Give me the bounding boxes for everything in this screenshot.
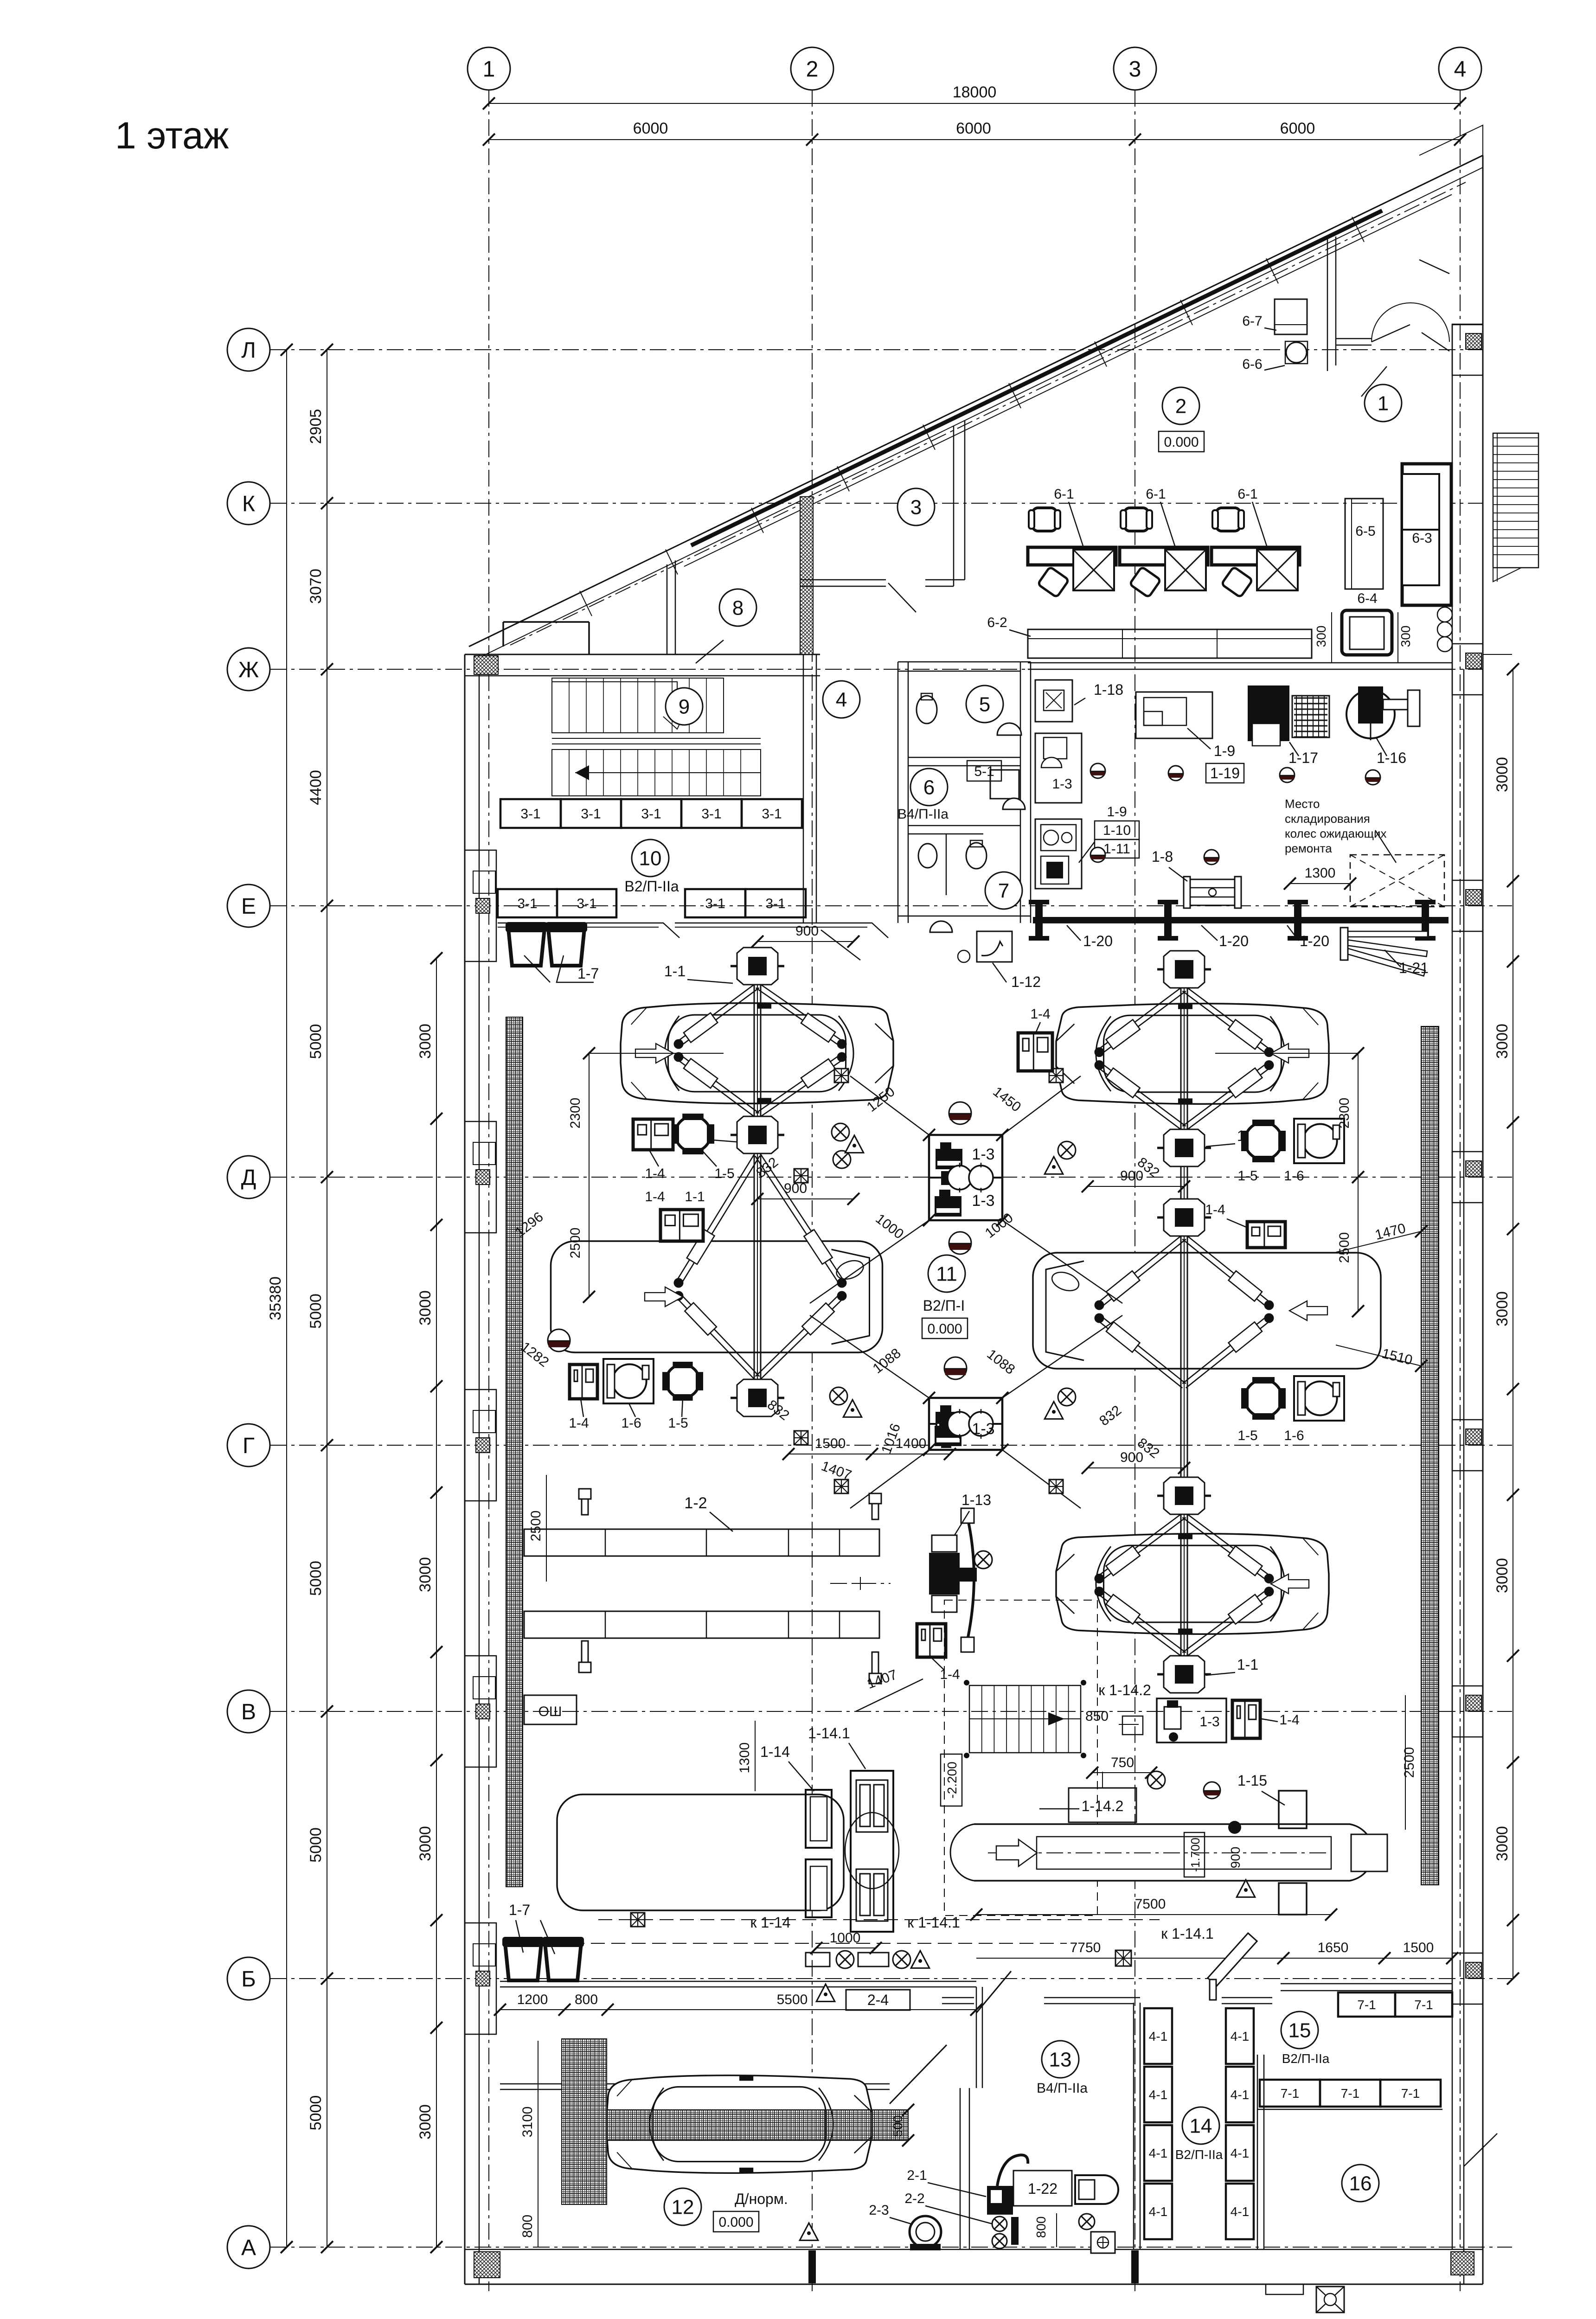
grid column line 2 bbox=[812, 90, 813, 2291]
dim 2500 row3 left bbox=[546, 1475, 547, 1582]
door leaf at Б bbox=[976, 1971, 1011, 2013]
svg-text:900: 900 bbox=[1228, 1847, 1243, 1869]
svg-text:800: 800 bbox=[520, 2215, 535, 2238]
entry arrow bay3 right bbox=[1271, 1574, 1309, 1594]
wall right outer bbox=[1482, 155, 1484, 2284]
vestibule doors bbox=[1372, 325, 1410, 342]
lift right head 4 bbox=[1157, 1477, 1211, 1514]
equip 1-4 right top bbox=[1018, 1033, 1052, 1071]
svg-text:1-5: 1-5 bbox=[668, 1416, 688, 1431]
grid bubble 2 bbox=[791, 47, 833, 90]
dim 900 mid-left lift bbox=[757, 1198, 853, 1199]
beam row Е thick bbox=[1033, 917, 1449, 923]
room 6 bubble bbox=[910, 769, 948, 806]
svg-text:1-3: 1-3 bbox=[1199, 1714, 1219, 1730]
svg-text:1-1: 1-1 bbox=[1237, 1656, 1258, 1673]
sanitary block walls bbox=[897, 662, 899, 923]
svg-text:850: 850 bbox=[1085, 1709, 1109, 1724]
svg-text:1-13: 1-13 bbox=[961, 1492, 991, 1508]
pilaster left wall row 3116 bbox=[465, 1390, 496, 1501]
drains center bbox=[949, 1102, 971, 1124]
svg-text:3100: 3100 bbox=[520, 2107, 535, 2138]
ramp from basement stair to conveyor bbox=[1039, 1808, 1079, 1810]
svg-text:3-1: 3-1 bbox=[577, 896, 596, 911]
dim 2300 right bbox=[1358, 1053, 1359, 1177]
equip 1-18 bbox=[1035, 680, 1072, 722]
svg-text:1-4: 1-4 bbox=[1030, 1006, 1050, 1022]
room 15 bubble bbox=[1281, 2012, 1318, 2049]
svg-text:1-18: 1-18 bbox=[1094, 681, 1123, 698]
dim 2300 left bbox=[589, 1053, 590, 1177]
svg-text:16: 16 bbox=[1349, 2172, 1372, 2195]
svg-text:ремонта: ремонта bbox=[1285, 841, 1332, 855]
small boxes at Б bbox=[806, 1953, 830, 1967]
svg-text:Ж: Ж bbox=[238, 658, 259, 682]
svg-text:3000: 3000 bbox=[417, 2104, 434, 2140]
svg-text:1-2: 1-2 bbox=[684, 1494, 707, 1512]
svg-text:2905: 2905 bbox=[307, 409, 325, 444]
svg-text:10: 10 bbox=[639, 847, 662, 870]
dim 2500 right bbox=[1358, 1177, 1359, 1311]
platform edge below shelves bbox=[498, 923, 679, 938]
dim arrow left bay bbox=[589, 1128, 761, 1129]
svg-text:3000: 3000 bbox=[1493, 1826, 1511, 1861]
grid row bubble Л bbox=[227, 328, 270, 371]
dim chain 1200 800 5500 bbox=[500, 2009, 976, 2010]
svg-text:750: 750 bbox=[1111, 1755, 1134, 1770]
dim 500 wash bbox=[908, 2110, 909, 2140]
svg-text:ОШ: ОШ bbox=[538, 1704, 562, 1719]
svg-text:1-15: 1-15 bbox=[1237, 1772, 1267, 1789]
grid row bubble Д bbox=[227, 1156, 270, 1198]
wall diagonal thick core bbox=[691, 211, 1382, 545]
boxes 1-15 bbox=[1279, 1791, 1307, 1828]
svg-text:18000: 18000 bbox=[953, 83, 997, 101]
svg-text:1-4: 1-4 bbox=[645, 1189, 665, 1204]
room 11 level 0.000 bbox=[922, 1318, 968, 1339]
svg-text:4: 4 bbox=[836, 688, 847, 711]
svg-text:3000: 3000 bbox=[417, 1557, 434, 1592]
svg-text:4-1: 4-1 bbox=[1231, 2088, 1249, 2102]
equip 6-7 bbox=[1275, 299, 1307, 334]
conveyor row4 right bbox=[974, 1824, 1373, 1881]
room 7 bubble bbox=[985, 872, 1022, 909]
svg-text:1-1: 1-1 bbox=[685, 1189, 705, 1204]
car bay2 left (van) bbox=[551, 1241, 883, 1352]
grid row line Г bbox=[270, 1445, 1512, 1446]
grid column line 3 bbox=[1135, 90, 1135, 2291]
dimension chain right 3000 bbox=[1513, 669, 1513, 1979]
svg-text:1-7: 1-7 bbox=[509, 1902, 530, 1918]
grid row line Ж bbox=[270, 669, 1483, 670]
svg-text:1-20: 1-20 bbox=[1083, 933, 1113, 949]
svg-text:1-5: 1-5 bbox=[1237, 1168, 1257, 1184]
grid row bubble В bbox=[227, 1690, 270, 1733]
svg-text:3000: 3000 bbox=[417, 1826, 434, 1861]
room 9 bubble bbox=[666, 688, 703, 725]
svg-text:1-6: 1-6 bbox=[1284, 1428, 1304, 1443]
bottom wall column marks bbox=[808, 2250, 816, 2283]
svg-text:800: 800 bbox=[1034, 2217, 1048, 2238]
dimension chain left spacings bbox=[327, 350, 327, 2247]
dashed feed lines row Б bbox=[598, 1919, 1160, 1920]
label box 1-14.2 bbox=[1069, 1788, 1136, 1822]
svg-text:Б: Б bbox=[241, 1967, 256, 1992]
basement stair dashed outline bbox=[944, 1600, 1097, 1915]
rack 1-2 bottom rail bbox=[524, 1611, 879, 1638]
equip 1-17 machine bbox=[1248, 685, 1289, 741]
svg-text:6-4: 6-4 bbox=[1357, 591, 1377, 606]
grid row bubble Г bbox=[227, 1424, 270, 1467]
svg-text:3000: 3000 bbox=[1493, 757, 1511, 792]
grid bubble 4 bbox=[1439, 47, 1481, 90]
svg-text:В2/П-IIа: В2/П-IIа bbox=[1175, 2147, 1223, 2162]
room 8 bubble bbox=[719, 589, 756, 626]
svg-text:1-3: 1-3 bbox=[972, 1192, 994, 1210]
svg-text:2300: 2300 bbox=[1337, 1098, 1352, 1129]
svg-text:9: 9 bbox=[679, 695, 690, 718]
room 14 bubble bbox=[1182, 2107, 1219, 2144]
facade mullions bbox=[580, 591, 592, 616]
svg-text:3-1: 3-1 bbox=[517, 896, 537, 911]
pilaster left wall row 3690 bbox=[465, 1656, 496, 1767]
wash equipment 2-1 sprayer bbox=[987, 2186, 1013, 2215]
svg-text:6: 6 bbox=[923, 776, 935, 799]
dim 7500 bbox=[976, 1914, 1331, 1915]
svg-text:4-1: 4-1 bbox=[1149, 2088, 1167, 2102]
svg-text:7-1: 7-1 bbox=[1281, 2086, 1299, 2101]
svg-text:2: 2 bbox=[806, 57, 819, 82]
svg-text:5000: 5000 bbox=[307, 1294, 325, 1329]
svg-text:1-6: 1-6 bbox=[1284, 1168, 1304, 1184]
room 3 door bbox=[888, 583, 916, 612]
svg-text:7-1: 7-1 bbox=[1401, 2086, 1420, 2101]
lift left head bottom bbox=[731, 1379, 784, 1416]
svg-text:0.000: 0.000 bbox=[927, 1321, 962, 1337]
shelves 7-1 row at Б bbox=[1338, 1992, 1395, 2017]
pilaster right wall row 2538 bbox=[1452, 1152, 1483, 1203]
svg-text:2500: 2500 bbox=[528, 1511, 544, 1542]
equip 1-5 bay1 left bbox=[675, 1116, 711, 1152]
svg-text:3000: 3000 bbox=[1493, 1558, 1511, 1593]
svg-text:1-11: 1-11 bbox=[1103, 841, 1130, 857]
wall room13 west upper bbox=[976, 1987, 977, 2088]
shelves 7-1 row2 bbox=[1260, 2080, 1320, 2107]
svg-text:В: В bbox=[241, 1700, 256, 1724]
svg-text:В2/П-IIа: В2/П-IIа bbox=[624, 878, 679, 895]
small circle near 1-12 bbox=[958, 950, 970, 962]
wall bottom hatch corner left bbox=[474, 2252, 500, 2278]
wall left outer bbox=[464, 654, 466, 2284]
octagon small squares bbox=[794, 1169, 808, 1183]
pilaster left wall row 2538 bbox=[465, 1121, 496, 1233]
dim 7750 1650 1500 bbox=[976, 1958, 1452, 1959]
funnel drain below bottom wall bbox=[1316, 2287, 1344, 2313]
shelving 3-1 row of five bbox=[500, 799, 561, 828]
svg-text:1-4: 1-4 bbox=[1205, 1202, 1225, 1217]
rack 1-2 posts bbox=[582, 1489, 588, 1515]
svg-text:1-9: 1-9 bbox=[1107, 804, 1127, 820]
door right wall room16 bbox=[1464, 2133, 1497, 2166]
svg-text:2500: 2500 bbox=[1402, 1747, 1417, 1778]
lift left head mid (1-1) bbox=[731, 1116, 784, 1153]
entry arrow bay2 right bbox=[1289, 1301, 1327, 1320]
sink room5 bbox=[997, 723, 1021, 735]
dim 2500 right of В bbox=[1405, 1695, 1406, 1830]
room 8 door bbox=[696, 640, 724, 663]
svg-text:1650: 1650 bbox=[1318, 1940, 1349, 1955]
walls rooms 13/14 bbox=[1133, 2003, 1135, 2249]
svg-text:К: К bbox=[242, 492, 255, 516]
dim 900 right lift bbox=[1088, 1186, 1184, 1187]
svg-text:6-3: 6-3 bbox=[1412, 531, 1432, 546]
svg-text:1-14: 1-14 bbox=[760, 1743, 790, 1760]
svg-text:к 1-14: к 1-14 bbox=[750, 1914, 791, 1931]
tilted plank bbox=[1208, 1933, 1257, 1986]
svg-text:2500: 2500 bbox=[1337, 1232, 1352, 1263]
svg-text:7750: 7750 bbox=[1070, 1940, 1101, 1955]
svg-text:5000: 5000 bbox=[307, 2095, 325, 2131]
svg-text:-1.700: -1.700 bbox=[1188, 1838, 1202, 1872]
tool station bottom (1-3) bbox=[929, 1398, 1002, 1450]
equip 1-5 1-6 right bay1 bbox=[1245, 1122, 1282, 1159]
cabinet 1-4 row В bbox=[1232, 1700, 1260, 1738]
octagon dashed lines bbox=[850, 1076, 929, 1135]
grid bubble 1 bbox=[468, 47, 510, 90]
svg-text:4-1: 4-1 bbox=[1149, 2146, 1167, 2160]
wall right inner bbox=[1452, 325, 1453, 2249]
svg-text:1500: 1500 bbox=[815, 1436, 846, 1451]
svg-text:7: 7 bbox=[998, 879, 1009, 902]
svg-text:3-1: 3-1 bbox=[520, 807, 540, 822]
warning wash bbox=[800, 2223, 818, 2240]
svg-text:3-1: 3-1 bbox=[765, 896, 785, 911]
grid row bubble Е bbox=[227, 884, 270, 927]
svg-text:1 этаж: 1 этаж bbox=[115, 115, 229, 157]
rack 1-2 center mark bbox=[830, 1583, 891, 1584]
fittings row В bbox=[1122, 1716, 1143, 1735]
svg-text:7500: 7500 bbox=[1135, 1896, 1166, 1912]
grid row line Б bbox=[270, 1978, 1512, 1979]
svg-text:3: 3 bbox=[1129, 57, 1141, 82]
wall between 12 and 13 bbox=[960, 2088, 961, 2249]
svg-text:2-4: 2-4 bbox=[867, 1992, 889, 2008]
equip 1-16 balancer bbox=[1346, 690, 1395, 738]
svg-text:Л: Л bbox=[241, 338, 256, 363]
svg-text:6-6: 6-6 bbox=[1242, 357, 1262, 372]
lift right rail bbox=[1180, 969, 1182, 1674]
storage area dashed bbox=[1350, 855, 1444, 907]
wall right middle bbox=[1463, 669, 1465, 2284]
svg-text:1500: 1500 bbox=[1403, 1940, 1434, 1955]
svg-text:5000: 5000 bbox=[307, 1827, 325, 1863]
svg-text:3-1: 3-1 bbox=[641, 807, 661, 822]
svg-text:500: 500 bbox=[891, 2115, 905, 2137]
wall below 7-1 row2 bbox=[1257, 2109, 1442, 2110]
shelving 3-1 pair right bbox=[685, 889, 745, 917]
room 5 bubble bbox=[966, 685, 1003, 723]
wall bottom (row А) bbox=[465, 2284, 1483, 2285]
svg-text:колес ожидающих: колес ожидающих bbox=[1285, 826, 1387, 840]
entrance door arcs bbox=[1372, 303, 1410, 342]
room 4 door opening bbox=[821, 930, 860, 960]
tool station top (1-3) bbox=[929, 1135, 1002, 1220]
svg-text:300: 300 bbox=[1398, 626, 1413, 647]
svg-text:4-1: 4-1 bbox=[1149, 2029, 1167, 2044]
fittings below 1-22 bbox=[1079, 2214, 1095, 2229]
svg-text:1-4: 1-4 bbox=[1279, 1712, 1299, 1728]
grid row bubble Б bbox=[227, 1957, 270, 2000]
svg-text:2: 2 bbox=[1175, 395, 1186, 417]
svg-text:5: 5 bbox=[979, 693, 990, 716]
grid row line Д bbox=[270, 1177, 1512, 1178]
grid row line Е bbox=[270, 905, 1512, 906]
equip 1-4 right mid bbox=[1247, 1222, 1285, 1248]
svg-text:1-4: 1-4 bbox=[645, 1166, 665, 1181]
waste bins 1-7 lower bbox=[505, 1943, 541, 1980]
svg-text:1-22: 1-22 bbox=[1028, 2180, 1058, 2197]
car bay3 right bbox=[1056, 1534, 1329, 1634]
grid row line К bbox=[270, 503, 1483, 504]
tire rack 1-8 bbox=[1186, 879, 1238, 905]
svg-text:1-21: 1-21 bbox=[1399, 960, 1429, 976]
dims above row Г cluster bbox=[788, 1454, 872, 1454]
svg-text:В4/П-IIа: В4/П-IIа bbox=[1037, 2081, 1088, 2096]
pilaster right wall row 3116 bbox=[1452, 1420, 1483, 1471]
svg-text:Место: Место bbox=[1285, 797, 1320, 811]
waste bins 1-7 upper bbox=[508, 929, 545, 966]
svg-text:В2/П-IIа: В2/П-IIа bbox=[1282, 2051, 1330, 2066]
svg-text:Д: Д bbox=[241, 1166, 256, 1190]
dim 300 left of 6-4 bbox=[1331, 612, 1332, 663]
room 8 walls bbox=[667, 564, 668, 654]
grid bubble 3 bbox=[1114, 47, 1156, 90]
svg-text:1-7: 1-7 bbox=[577, 965, 599, 982]
svg-text:3000: 3000 bbox=[417, 1024, 434, 1059]
car bay2 right (van) bbox=[1033, 1253, 1381, 1369]
room 2 bubble bbox=[1162, 387, 1199, 424]
svg-text:Г: Г bbox=[243, 1434, 255, 1458]
radiator scallops bbox=[1437, 607, 1452, 652]
label 1-7 upper bbox=[524, 955, 550, 982]
svg-text:1: 1 bbox=[483, 57, 495, 82]
room 2 level mark 0.000 bbox=[1159, 431, 1204, 452]
shelves 4-1 column A bbox=[1144, 2008, 1172, 2064]
van row4 left bbox=[557, 1794, 844, 1910]
svg-text:5000: 5000 bbox=[307, 1561, 325, 1596]
toilet room5 bbox=[917, 696, 937, 724]
svg-text:6-2: 6-2 bbox=[987, 615, 1007, 630]
gas outlets bbox=[832, 1123, 849, 1141]
svg-text:900: 900 bbox=[795, 923, 819, 939]
svg-text:1300: 1300 bbox=[1305, 865, 1336, 881]
tank 1-22 bbox=[1013, 2171, 1072, 2206]
svg-text:складирования: складирования bbox=[1285, 812, 1370, 826]
svg-text:1-14.2: 1-14.2 bbox=[1082, 1798, 1124, 1814]
wall hatch at Ж left corner bbox=[474, 656, 498, 674]
roof apex triangle bbox=[1419, 125, 1483, 155]
svg-text:4400: 4400 bbox=[307, 770, 325, 805]
signal box ОШ bbox=[524, 1695, 577, 1724]
svg-text:900: 900 bbox=[1120, 1450, 1143, 1465]
svg-text:2-2: 2-2 bbox=[904, 2191, 924, 2206]
svg-text:6-1: 6-1 bbox=[1146, 487, 1166, 502]
pilaster right wall row 754 bbox=[1452, 324, 1483, 375]
wall reception south bbox=[1028, 662, 1452, 664]
room 1 bubble bbox=[1365, 384, 1402, 422]
dim 900 right lift bay3 bbox=[1088, 1467, 1184, 1468]
svg-text:1-20: 1-20 bbox=[1300, 933, 1329, 949]
dim 3100 bbox=[538, 2041, 538, 2203]
wash equipment 2-2 bbox=[992, 2217, 1007, 2231]
room 3 walls bbox=[953, 426, 955, 586]
room 3 bubble bbox=[897, 488, 935, 525]
wash bay car bbox=[607, 2076, 872, 2173]
svg-text:1-20: 1-20 bbox=[1219, 933, 1249, 949]
pilaster right wall row 3690 bbox=[1452, 1686, 1483, 1737]
pump station 1-3 row В bbox=[1157, 1698, 1226, 1742]
wash equipment 2-3 bbox=[910, 2216, 941, 2248]
basement stair bbox=[969, 1685, 1081, 1753]
svg-text:1-9: 1-9 bbox=[1214, 743, 1235, 759]
sanitary lower boxes bbox=[1035, 819, 1082, 889]
sink room 7 bbox=[930, 921, 952, 932]
svg-text:3-1: 3-1 bbox=[762, 807, 782, 822]
room 4 bubble bbox=[823, 681, 860, 718]
svg-text:1-8: 1-8 bbox=[1152, 848, 1173, 865]
svg-text:1300: 1300 bbox=[737, 1742, 752, 1774]
svg-text:Д/норм.: Д/норм. bbox=[735, 2191, 788, 2207]
dimension 6000 segments bbox=[489, 139, 1460, 140]
pilaster right wall row 1953 bbox=[1452, 880, 1483, 931]
dim 300 right of 6-4 bbox=[1397, 612, 1398, 663]
equip 1-5 1-6 right bay2 bbox=[1245, 1380, 1282, 1417]
equip 6-6 cooler bbox=[1286, 342, 1307, 363]
room 10 bubble bbox=[632, 839, 669, 877]
labels 1-9 1-10 1-11 stack bbox=[1095, 821, 1139, 839]
label 1-12 bbox=[993, 963, 1006, 982]
wall row Ж stair block top bbox=[465, 654, 820, 655]
lift right arms X1 bbox=[1095, 987, 1274, 1131]
lift right arms X2 bbox=[1095, 1235, 1274, 1388]
svg-text:1-6: 1-6 bbox=[621, 1416, 641, 1431]
label 5-1 bbox=[967, 761, 1001, 781]
lift left rail bbox=[754, 966, 755, 1398]
svg-text:0.000: 0.000 bbox=[718, 2215, 753, 2230]
svg-text:1-10: 1-10 bbox=[1103, 823, 1131, 838]
svg-text:1-12: 1-12 bbox=[1011, 974, 1041, 990]
lift left arms X1 bbox=[674, 983, 847, 1118]
lift left arms X2 bbox=[674, 1153, 847, 1381]
svg-text:4-1: 4-1 bbox=[1149, 2204, 1167, 2219]
svg-text:12: 12 bbox=[672, 2196, 694, 2218]
grid row line Л bbox=[270, 349, 1483, 350]
dim 750 bbox=[1092, 1772, 1151, 1773]
wall 14/15-16 bbox=[1257, 2055, 1258, 2249]
toilet room 7a bbox=[918, 844, 937, 868]
lift right head 5 (1-1) bbox=[1157, 1656, 1211, 1693]
staircase room 9 flight 2 bbox=[552, 750, 761, 796]
svg-text:3000: 3000 bbox=[1493, 1291, 1511, 1326]
pilaster left wall row 4266 bbox=[465, 1923, 496, 2034]
equip group bay2 bottom left bbox=[570, 1364, 597, 1399]
equip 1-9 1-19 cabinet bbox=[1136, 692, 1212, 738]
armchair 6-4 bbox=[1342, 610, 1392, 655]
svg-text:0.000: 0.000 bbox=[1164, 435, 1199, 450]
svg-text:1400: 1400 bbox=[896, 1436, 927, 1451]
workstation 2 bbox=[1124, 508, 1148, 531]
wall diagonal facade inner lines bbox=[477, 167, 1483, 659]
